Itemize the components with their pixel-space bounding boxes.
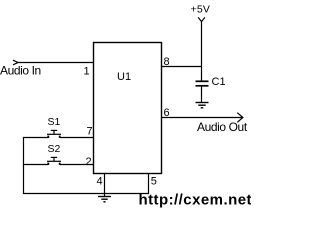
svg-text:S1: S1 xyxy=(48,116,61,128)
svg-text:6: 6 xyxy=(164,107,170,119)
wire xyxy=(162,117,243,119)
svg-text:5: 5 xyxy=(151,176,157,188)
wire xyxy=(104,174,106,195)
ground xyxy=(196,103,209,108)
svg-text:7: 7 xyxy=(87,126,93,138)
wire xyxy=(201,87,203,103)
svg-text:Audio In: Audio In xyxy=(0,64,41,78)
wire xyxy=(18,62,93,64)
power +5V xyxy=(191,4,211,22)
node Audio In arrow xyxy=(13,60,18,65)
svg-text:S2: S2 xyxy=(48,143,61,155)
svg-text:1: 1 xyxy=(84,66,90,78)
switch S1 xyxy=(23,116,93,138)
svg-text:2: 2 xyxy=(86,156,92,168)
svg-text:Audio Out: Audio Out xyxy=(197,120,248,134)
svg-text:4: 4 xyxy=(97,176,103,188)
wire xyxy=(201,22,203,82)
ground xyxy=(98,197,111,202)
wire xyxy=(23,193,149,195)
svg-text:C1: C1 xyxy=(212,76,226,88)
wire xyxy=(162,66,202,68)
op-amp U1 xyxy=(94,43,162,174)
svg-text:http://cxem.net: http://cxem.net xyxy=(139,192,252,209)
svg-text:8: 8 xyxy=(164,56,170,68)
wire xyxy=(148,174,150,195)
switch S2 xyxy=(23,143,93,165)
wire xyxy=(23,138,25,194)
node Audio Out arrow xyxy=(237,113,243,123)
wire xyxy=(104,194,106,197)
svg-text:U1: U1 xyxy=(117,71,131,83)
svg-text:+5V: +5V xyxy=(191,4,211,16)
capacitor C1 xyxy=(196,76,226,88)
